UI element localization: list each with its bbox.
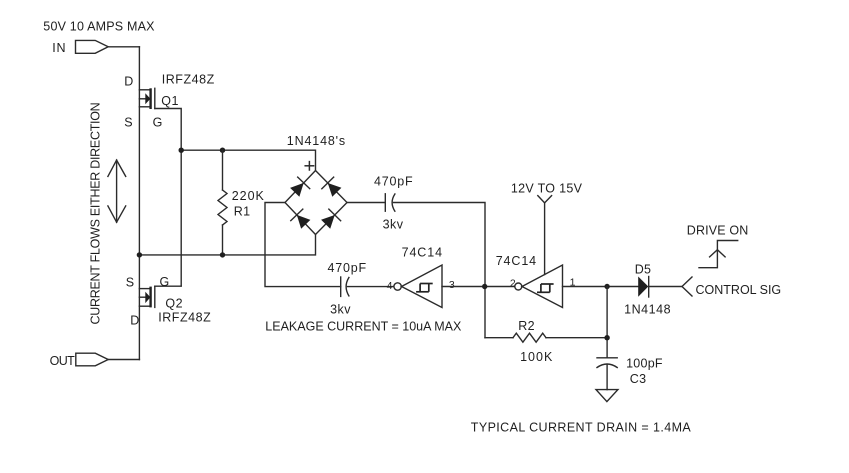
label plus xyxy=(305,162,313,170)
svg-text:S: S xyxy=(126,276,134,290)
svg-text:470pF: 470pF xyxy=(374,174,413,188)
svg-text:TYPICAL CURRENT DRAIN = 1.4MA: TYPICAL CURRENT DRAIN = 1.4MA xyxy=(471,421,692,435)
svg-text:D5: D5 xyxy=(635,262,652,276)
bridge diode upper-right xyxy=(322,177,342,197)
wire upper cap down to U1A output node xyxy=(393,203,485,338)
bridge diode upper-left xyxy=(290,177,310,197)
svg-text:D: D xyxy=(130,314,139,328)
svg-text:3kv: 3kv xyxy=(330,302,351,316)
svg-text:74C14: 74C14 xyxy=(402,245,443,259)
diode D5 xyxy=(638,277,649,298)
svg-text:12V TO 15V: 12V TO 15V xyxy=(511,181,583,195)
junction R1 bottom xyxy=(220,252,225,257)
svg-text:Q2: Q2 xyxy=(165,296,183,310)
wire Q1 gate to gate bus xyxy=(155,109,181,286)
power symbol 12V-15V xyxy=(538,196,552,203)
svg-text:D: D xyxy=(124,74,133,88)
svg-text:1N4148's: 1N4148's xyxy=(287,134,346,148)
svg-text:Q1: Q1 xyxy=(161,94,179,108)
junction gate bus xyxy=(179,148,184,153)
resistor R2 xyxy=(485,333,607,342)
junction R1 top xyxy=(220,148,225,153)
svg-text:R2: R2 xyxy=(518,319,535,333)
wire bridge left AC down to lower cap xyxy=(265,203,341,287)
junction inverter chain xyxy=(482,284,487,289)
svg-text:IN: IN xyxy=(52,41,66,55)
connector IN tag xyxy=(76,40,109,53)
svg-text:4: 4 xyxy=(387,280,393,292)
wire OUT horizontal xyxy=(108,359,139,361)
bidirectional arrow xyxy=(108,160,126,222)
junction source bus xyxy=(137,252,142,257)
svg-text:3kv: 3kv xyxy=(383,218,404,232)
bridge diode lower-left xyxy=(291,209,311,229)
wire main vertical bus Q1/Q2 xyxy=(138,47,140,360)
svg-text:CURRENT FLOWS EITHER DIRECTION: CURRENT FLOWS EITHER DIRECTION xyxy=(88,102,102,324)
wire gate bus to bridge plus xyxy=(181,150,315,170)
svg-text:2: 2 xyxy=(510,277,516,289)
bridge diode lower-right xyxy=(321,209,341,229)
svg-text:220K: 220K xyxy=(232,189,265,203)
svg-text:100pF: 100pF xyxy=(626,357,663,371)
wire lower cap to U1A input xyxy=(347,286,393,288)
wire U1A output to U1B input xyxy=(442,286,515,288)
wire D5 to control sig xyxy=(649,286,682,288)
wire U1B output to D5 xyxy=(563,286,639,288)
svg-text:470pF: 470pF xyxy=(328,261,367,275)
svg-text:100K: 100K xyxy=(520,350,553,364)
op-amp U1A 74C14 inverter xyxy=(394,265,442,308)
wire output node down to R2/C3 xyxy=(606,287,608,358)
junction output node xyxy=(604,284,609,289)
svg-text:74C14: 74C14 xyxy=(496,254,537,268)
transistor Q2 xyxy=(139,286,154,307)
junction R2 C3 xyxy=(604,335,609,340)
connector OUT tag xyxy=(76,353,108,366)
resistor R1 xyxy=(218,150,227,255)
capacitor C3 100pF xyxy=(597,358,617,390)
svg-text:C3: C3 xyxy=(630,372,647,386)
svg-text:DRIVE ON: DRIVE ON xyxy=(687,224,749,238)
capacitor lower 470pF 3kv xyxy=(341,277,349,296)
svg-text:OUT: OUT xyxy=(50,354,76,368)
svg-text:LEAKAGE CURRENT = 10uA MAX: LEAKAGE CURRENT = 10uA MAX xyxy=(265,320,462,334)
wire IN to drain bus xyxy=(108,46,139,48)
svg-text:G: G xyxy=(153,116,163,130)
wire power to U1B xyxy=(544,203,546,275)
svg-text:IRFZ48Z: IRFZ48Z xyxy=(162,73,215,87)
svg-text:S: S xyxy=(124,116,132,130)
connector CONTROL SIG xyxy=(682,277,692,296)
op-amp U1B 74C14 inverter xyxy=(515,265,563,308)
diode bridge frame xyxy=(285,171,347,235)
wire bridge right AC to upper cap xyxy=(347,202,385,204)
ground xyxy=(596,390,618,402)
transistor Q1 xyxy=(139,88,154,109)
wire source bus to bridge minus xyxy=(139,235,315,255)
drive-on edge symbol xyxy=(699,241,738,268)
svg-text:50V 10 AMPS MAX: 50V 10 AMPS MAX xyxy=(43,20,155,34)
capacitor upper 470pF 3kv xyxy=(385,194,395,211)
svg-text:IRFZ48Z: IRFZ48Z xyxy=(158,311,211,325)
svg-text:1N4148: 1N4148 xyxy=(624,303,671,317)
svg-text:CONTROL SIG: CONTROL SIG xyxy=(696,283,782,297)
wire Q2 gate to gate bus xyxy=(155,285,181,287)
svg-text:3: 3 xyxy=(449,279,455,291)
svg-text:R1: R1 xyxy=(234,204,251,218)
